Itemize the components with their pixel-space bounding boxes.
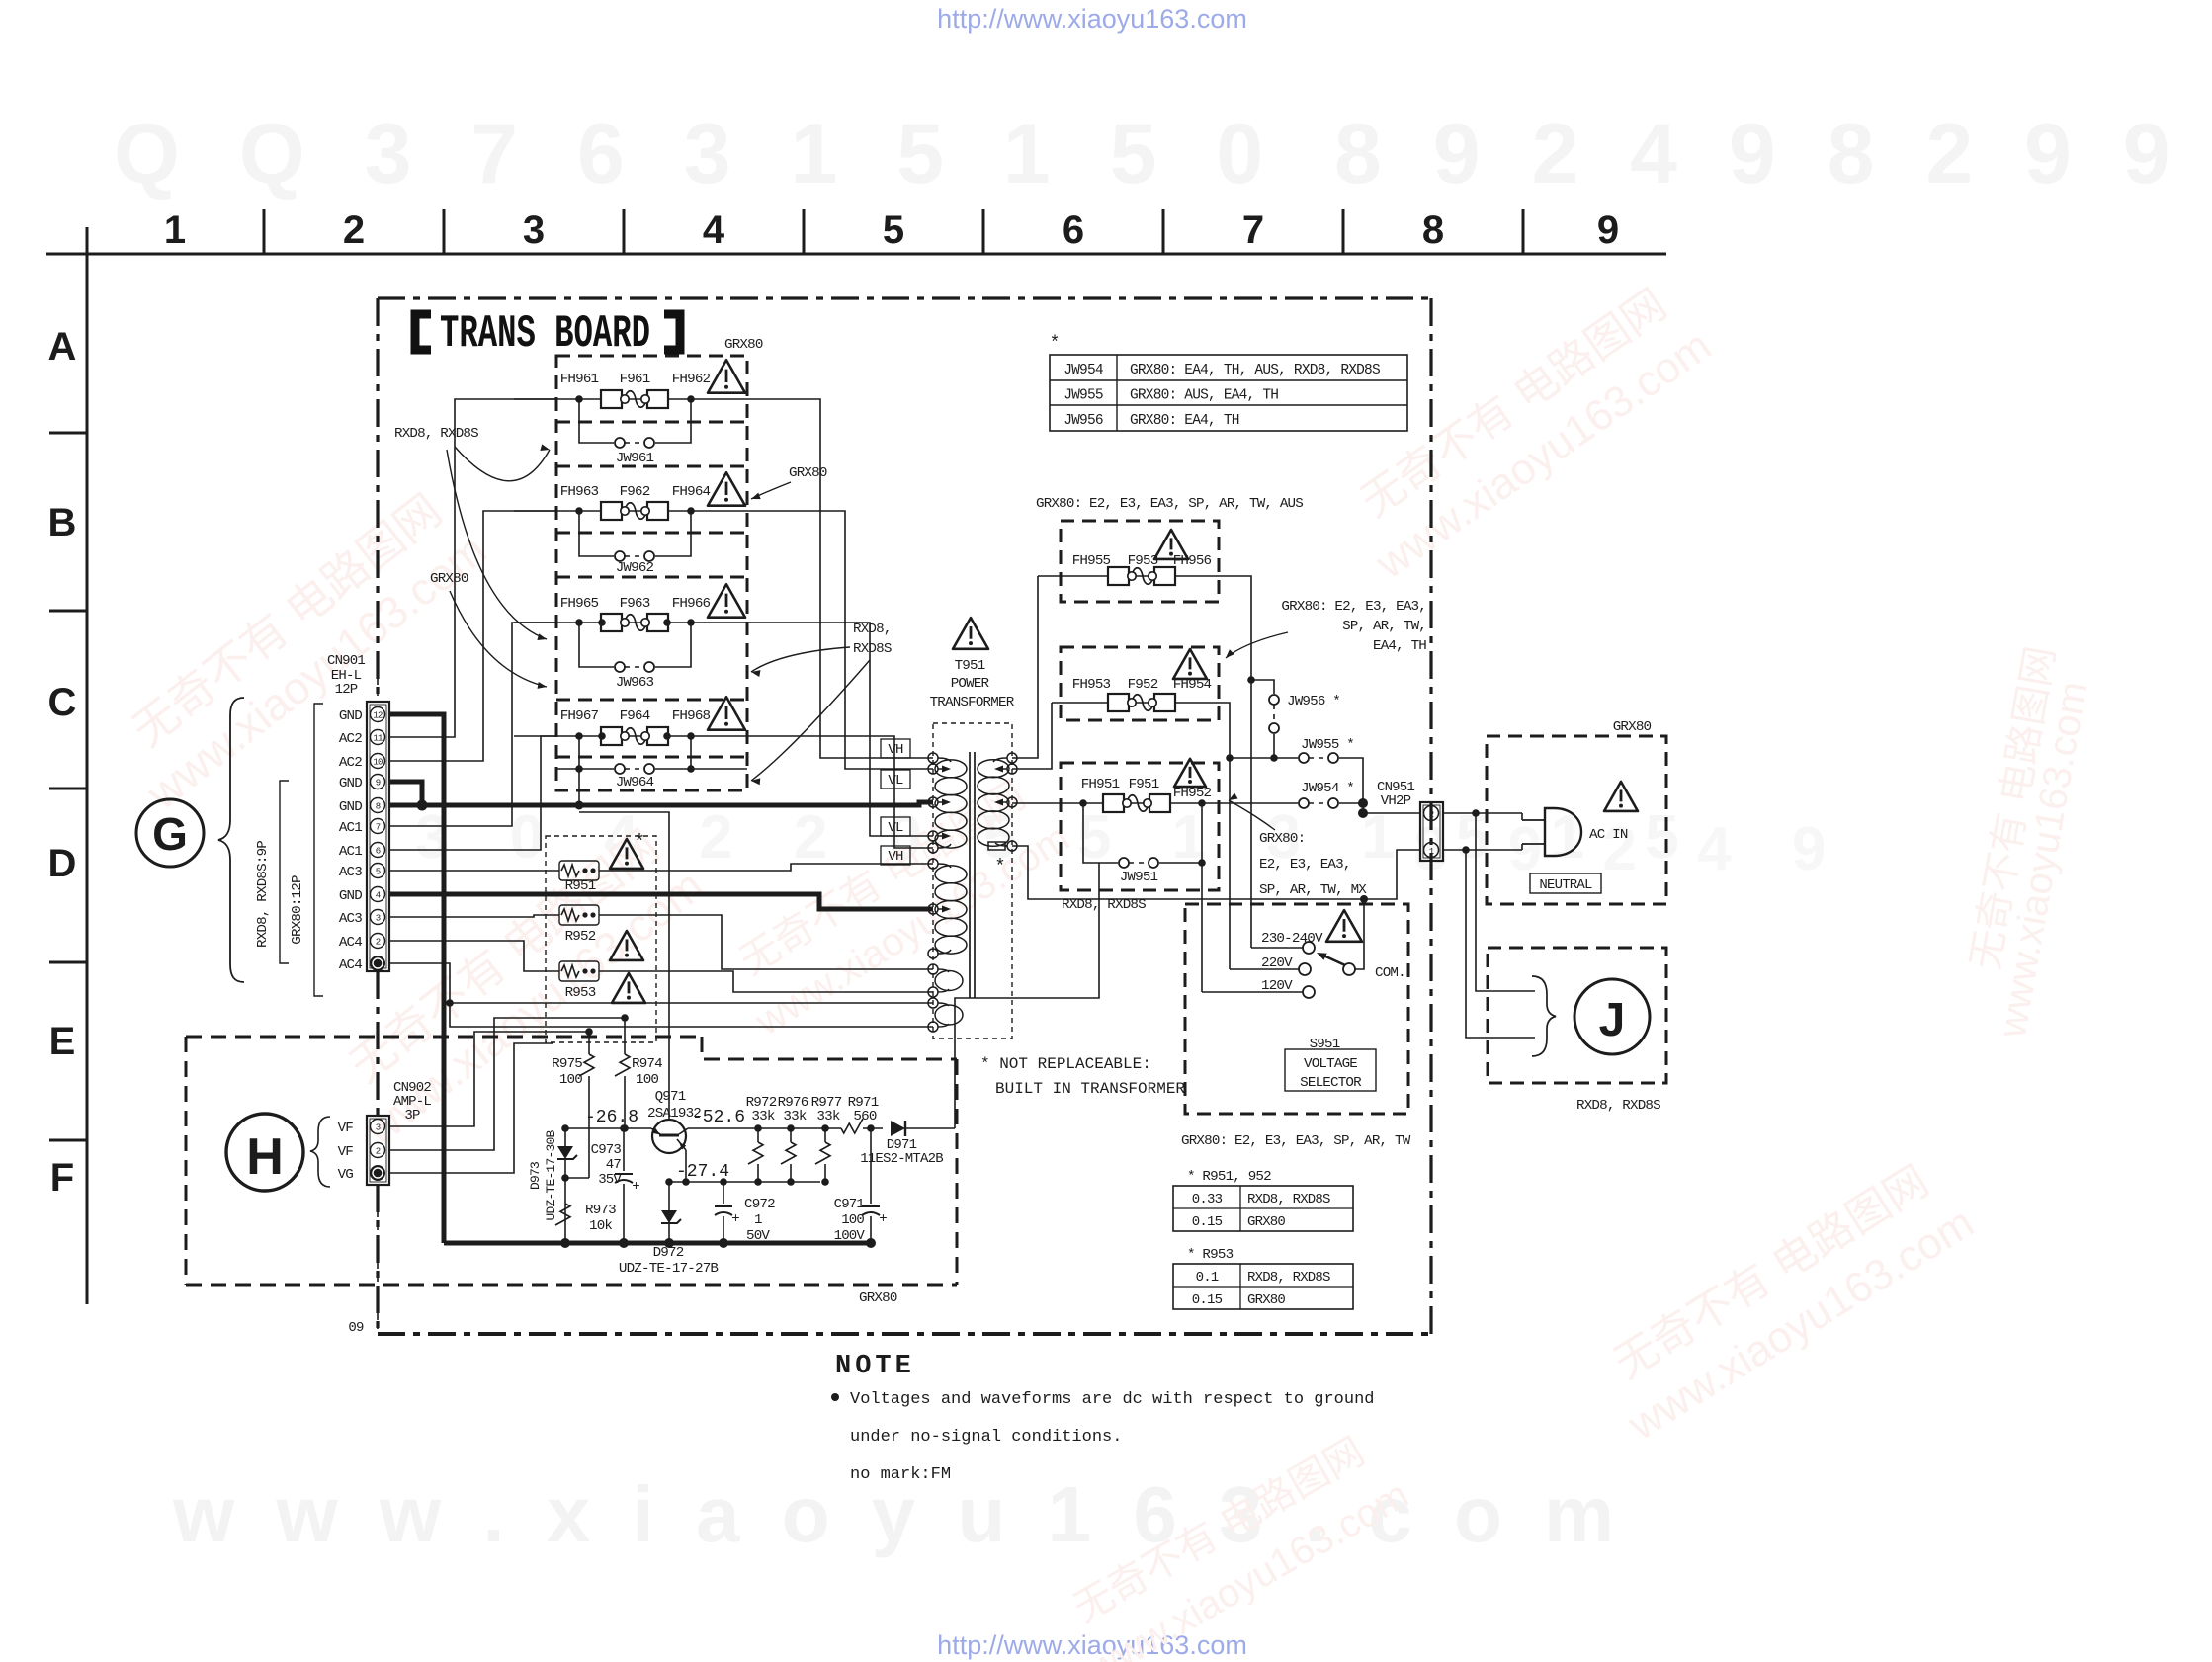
svg-text:100: 100 <box>636 1072 658 1088</box>
svg-text:JW956 *: JW956 * <box>1287 694 1340 709</box>
svg-text:RXD8S: RXD8S <box>853 641 892 657</box>
svg-text:VL: VL <box>888 773 903 789</box>
svg-text:under no-signal conditions.: under no-signal conditions. <box>850 1428 1122 1447</box>
svg-text:7: 7 <box>1242 208 1264 252</box>
svg-text:J: J <box>1599 994 1626 1046</box>
svg-text:AC4: AC4 <box>339 935 362 951</box>
svg-text:FH965: FH965 <box>560 596 599 612</box>
svg-text:VL: VL <box>888 820 903 836</box>
svg-text:GRX80: EA4, TH, AUS, RXD8, RXD: GRX80: EA4, TH, AUS, RXD8, RXD8S <box>1130 363 1380 378</box>
svg-text:1: 1 <box>164 208 186 252</box>
svg-text:8: 8 <box>1422 208 1444 252</box>
svg-text:0.33: 0.33 <box>1192 1192 1223 1207</box>
svg-text:R951: R951 <box>565 878 596 894</box>
svg-text:10: 10 <box>373 758 383 768</box>
svg-text:C: C <box>48 681 77 724</box>
svg-text:*: * <box>634 832 645 855</box>
svg-text:Q Q 3 7 6 3 1 5 1 5 0: Q Q 3 7 6 3 1 5 1 5 0 <box>114 107 1281 202</box>
svg-text:FH961: FH961 <box>560 372 599 387</box>
svg-text:-26.8: -26.8 <box>585 1108 638 1127</box>
svg-text:E2, E3, EA3,: E2, E3, EA3, <box>1259 857 1351 873</box>
svg-text:F951: F951 <box>1129 777 1159 792</box>
svg-text:RXD8, RXD8S: RXD8, RXD8S <box>1247 1192 1330 1207</box>
svg-text:B: B <box>48 501 77 544</box>
svg-text:SP, AR, TW,: SP, AR, TW, <box>1342 619 1426 634</box>
svg-text:AC4: AC4 <box>339 957 362 973</box>
svg-text:F: F <box>50 1156 74 1200</box>
svg-text:-52.6: -52.6 <box>692 1108 745 1127</box>
svg-text:0.1: 0.1 <box>1196 1270 1219 1286</box>
svg-text:C972: C972 <box>744 1197 775 1212</box>
svg-text:09: 09 <box>348 1320 364 1336</box>
svg-text:FH967: FH967 <box>560 708 599 724</box>
svg-text:AC2: AC2 <box>339 731 362 747</box>
svg-text:TRANS BOARD: TRANS BOARD <box>440 308 650 360</box>
svg-text:T951: T951 <box>955 658 985 674</box>
svg-text:H: H <box>246 1128 284 1186</box>
svg-text:AC3: AC3 <box>339 911 362 927</box>
svg-text:35V: 35V <box>598 1172 622 1188</box>
svg-text:7: 7 <box>376 823 381 833</box>
svg-text:R953: R953 <box>565 985 596 1001</box>
svg-text:UDZ-TE-17-30B: UDZ-TE-17-30B <box>544 1130 558 1221</box>
svg-text:TRANSFORMER: TRANSFORMER <box>930 695 1015 710</box>
svg-text:JW961: JW961 <box>616 451 654 466</box>
svg-text:UDZ-TE-17-27B: UDZ-TE-17-27B <box>619 1261 719 1277</box>
svg-text:GRX80: GRX80 <box>724 337 763 353</box>
svg-text:GRX80:12P: GRX80:12P <box>290 875 305 945</box>
svg-text:JW962: JW962 <box>616 560 654 576</box>
svg-text:NEUTRAL: NEUTRAL <box>1539 877 1592 893</box>
svg-text:100: 100 <box>559 1072 582 1088</box>
svg-text:G: G <box>152 808 188 860</box>
svg-text:* NOT REPLACEABLE:: * NOT REPLACEABLE: <box>980 1055 1151 1073</box>
svg-text:RXD8, RXD8S: RXD8, RXD8S <box>1576 1098 1660 1114</box>
svg-text:2: 2 <box>376 1147 381 1157</box>
svg-text:GRX80: GRX80 <box>789 465 827 481</box>
svg-text:4: 4 <box>703 208 725 252</box>
svg-text:9: 9 <box>376 779 381 789</box>
svg-text:R973: R973 <box>585 1203 616 1218</box>
svg-text:http://www.xiaoyu163.com: http://www.xiaoyu163.com <box>937 4 1247 34</box>
svg-text:GND: GND <box>339 888 362 904</box>
svg-text:FH966: FH966 <box>672 596 711 612</box>
svg-text:EA4, TH: EA4, TH <box>1373 638 1426 654</box>
svg-text:GRX80: GRX80 <box>430 571 468 587</box>
svg-text:Voltages and waveforms are dc: Voltages and waveforms are dc with respe… <box>850 1390 1375 1409</box>
svg-text:4: 4 <box>376 891 381 901</box>
svg-text:GRX80:: GRX80: <box>1259 831 1305 847</box>
svg-text:9: 9 <box>1597 208 1619 252</box>
svg-text:R952: R952 <box>565 929 596 945</box>
svg-text:JW955: JW955 <box>1063 388 1103 404</box>
svg-text:FH955: FH955 <box>1072 553 1111 569</box>
svg-text:GRX80: GRX80 <box>859 1290 897 1306</box>
svg-text:33k: 33k <box>751 1109 774 1124</box>
svg-text:AC1: AC1 <box>339 820 362 836</box>
svg-text:2: 2 <box>376 938 381 948</box>
svg-text:10k: 10k <box>589 1218 612 1234</box>
svg-text:JW955 *: JW955 * <box>1301 737 1354 753</box>
svg-text:JW956: JW956 <box>1063 413 1103 429</box>
svg-text:F963: F963 <box>620 596 650 612</box>
svg-text:FH962: FH962 <box>672 372 711 387</box>
svg-text:C971: C971 <box>834 1197 865 1212</box>
svg-text:E: E <box>49 1020 76 1063</box>
svg-text:2: 2 <box>343 208 365 252</box>
svg-text:FH952: FH952 <box>1173 786 1212 801</box>
svg-text:VG: VG <box>338 1167 354 1183</box>
svg-text:POWER: POWER <box>951 676 990 692</box>
svg-text:AC1: AC1 <box>339 844 362 860</box>
svg-text:R974: R974 <box>632 1056 662 1072</box>
svg-text:FH953: FH953 <box>1072 677 1111 693</box>
svg-text:BUILT IN TRANSFORMER: BUILT IN TRANSFORMER <box>995 1080 1185 1098</box>
svg-text:GRX80: E2, E3, EA3, SP, AR, TW: GRX80: E2, E3, EA3, SP, AR, TW, AUS <box>1036 496 1303 512</box>
svg-text:100: 100 <box>841 1212 864 1228</box>
svg-text:FH963: FH963 <box>560 484 599 500</box>
svg-text:F962: F962 <box>620 484 650 500</box>
svg-text:NOTE: NOTE <box>835 1352 915 1381</box>
svg-text:1: 1 <box>754 1212 762 1228</box>
svg-text:VH2P: VH2P <box>1381 793 1411 809</box>
svg-text:11ES2-MTA2B: 11ES2-MTA2B <box>860 1151 943 1167</box>
svg-text:FH956: FH956 <box>1173 553 1212 569</box>
svg-text:F952: F952 <box>1128 677 1158 693</box>
svg-text:GRX80: E2, E3, EA3,: GRX80: E2, E3, EA3, <box>1281 599 1426 615</box>
svg-text:8: 8 <box>376 802 381 812</box>
svg-text:2: 2 <box>1429 810 1434 820</box>
svg-text:JW954 *: JW954 * <box>1301 781 1354 796</box>
svg-text:3: 3 <box>523 208 545 252</box>
svg-text:D: D <box>48 842 77 885</box>
svg-text:C973: C973 <box>591 1142 622 1158</box>
svg-text:A: A <box>48 325 77 369</box>
svg-text:33k: 33k <box>783 1109 806 1124</box>
svg-text:AC3: AC3 <box>339 865 362 880</box>
svg-text:* R953: * R953 <box>1187 1247 1234 1263</box>
svg-text:R975: R975 <box>552 1056 582 1072</box>
svg-text:RXD8, RXD8S:9P: RXD8, RXD8S:9P <box>255 841 271 948</box>
svg-text:560: 560 <box>853 1109 876 1124</box>
svg-text:3P: 3P <box>404 1108 420 1123</box>
svg-text:GRX80: GRX80 <box>1247 1292 1285 1308</box>
svg-text:D973: D973 <box>528 1162 543 1190</box>
svg-text:AC2: AC2 <box>339 755 362 771</box>
svg-text:VH: VH <box>888 849 903 865</box>
svg-text:RXD8,: RXD8, <box>853 622 892 637</box>
svg-text:VOLTAGE: VOLTAGE <box>1304 1056 1357 1072</box>
svg-text:6: 6 <box>376 847 381 857</box>
svg-text:GND: GND <box>339 776 362 791</box>
svg-text:JW964: JW964 <box>616 775 654 790</box>
svg-text:SP, AR, TW, MX: SP, AR, TW, MX <box>1259 882 1367 898</box>
svg-text:FH964: FH964 <box>672 484 711 500</box>
svg-text:8 9 2 4 9 8 2 9 9: 8 9 2 4 9 8 2 9 9 <box>1334 107 2184 202</box>
svg-text:6: 6 <box>1063 208 1084 252</box>
svg-text:VH: VH <box>888 742 903 758</box>
svg-text:+: + <box>731 1211 739 1227</box>
svg-text:* R951, 952: * R951, 952 <box>1187 1169 1271 1185</box>
svg-text:no mark:FM: no mark:FM <box>850 1465 951 1484</box>
svg-text:GRX80: AUS, EA4, TH: GRX80: AUS, EA4, TH <box>1130 388 1278 404</box>
svg-text:GND: GND <box>339 799 362 815</box>
svg-text:F964: F964 <box>620 708 650 724</box>
svg-text:0.15: 0.15 <box>1192 1292 1223 1308</box>
svg-text:JW954: JW954 <box>1063 363 1103 378</box>
svg-text:3: 3 <box>376 1123 381 1133</box>
svg-text:GRX80: GRX80 <box>1247 1214 1285 1230</box>
svg-text:1: 1 <box>1429 847 1434 857</box>
svg-text:CN901: CN901 <box>327 653 365 669</box>
svg-text:FH951: FH951 <box>1081 777 1120 792</box>
svg-text:SELECTOR: SELECTOR <box>1300 1075 1362 1091</box>
svg-text:GRX80: GRX80 <box>1613 719 1652 735</box>
svg-text:JW963: JW963 <box>616 675 654 691</box>
svg-text:VF: VF <box>338 1144 354 1160</box>
svg-text:12: 12 <box>373 711 383 721</box>
svg-text:+: + <box>632 1179 639 1195</box>
svg-text:GND: GND <box>339 708 362 724</box>
svg-text:JW951: JW951 <box>1120 870 1158 885</box>
svg-text:33k: 33k <box>816 1109 839 1124</box>
svg-text:5: 5 <box>376 868 381 877</box>
svg-text:47: 47 <box>606 1157 622 1173</box>
svg-text:3: 3 <box>376 914 381 924</box>
svg-text:GRX80: EA4, TH: GRX80: EA4, TH <box>1130 413 1239 429</box>
svg-text:GRX80: E2, E3, EA3, SP, AR, TW: GRX80: E2, E3, EA3, SP, AR, TW <box>1181 1133 1411 1149</box>
svg-text:*: * <box>994 856 1005 877</box>
svg-text:RXD8, RXD8S: RXD8, RXD8S <box>1247 1270 1330 1286</box>
svg-text:12P: 12P <box>335 682 358 698</box>
svg-text:*: * <box>1050 334 1061 354</box>
svg-text:+: + <box>879 1211 887 1227</box>
svg-text:AC IN: AC IN <box>1589 827 1628 843</box>
svg-text:F961: F961 <box>620 372 650 387</box>
svg-text:RXD8, RXD8S: RXD8, RXD8S <box>394 426 478 442</box>
svg-text:0.15: 0.15 <box>1192 1214 1223 1230</box>
svg-text:FH968: FH968 <box>672 708 711 724</box>
svg-text:VF: VF <box>338 1121 354 1136</box>
svg-text:11: 11 <box>373 734 383 744</box>
svg-text:5: 5 <box>883 208 904 252</box>
svg-text:Q971: Q971 <box>655 1089 686 1105</box>
svg-text:COM.: COM. <box>1375 965 1405 981</box>
